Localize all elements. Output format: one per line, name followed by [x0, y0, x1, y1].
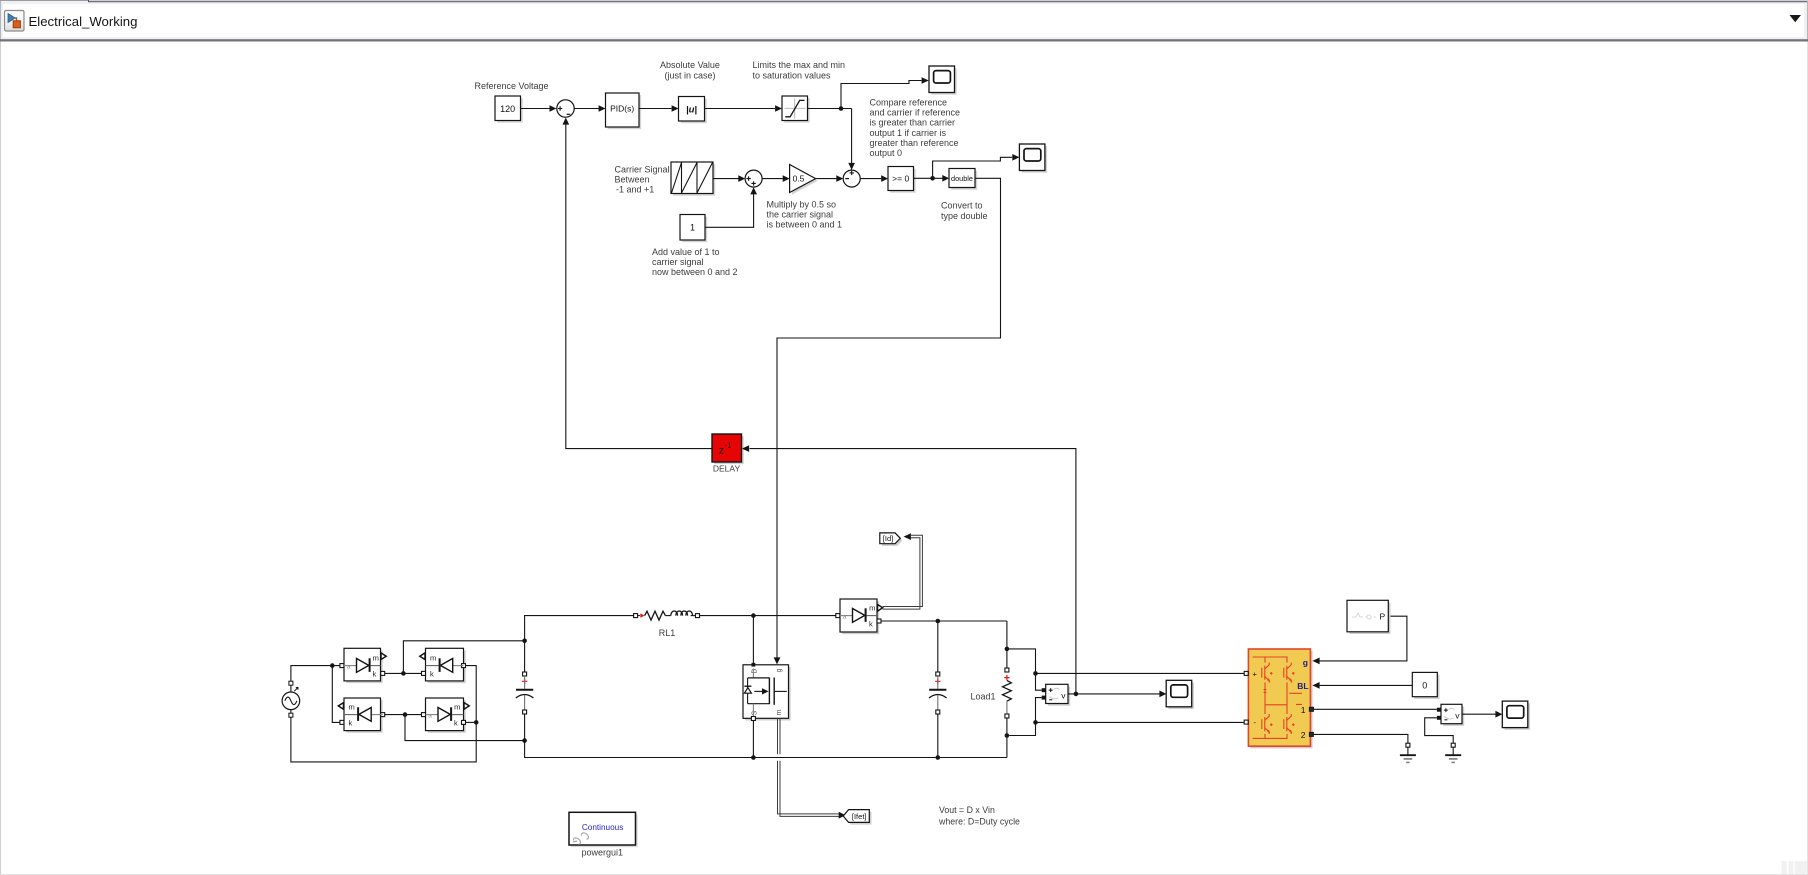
svg-text:Carrier Signal: Carrier Signal — [615, 165, 670, 175]
annotation: Convert to type double — [941, 201, 988, 222]
svg-text:D: D — [752, 669, 759, 674]
diode D4 (bridge bottom-right) — [422, 698, 470, 733]
svg-text:powergui1: powergui1 — [582, 848, 624, 858]
data type conversion double — [949, 169, 977, 190]
svg-text:a: a — [843, 613, 847, 620]
abs block |u| — [679, 97, 707, 124]
svg-text:k: k — [454, 719, 458, 728]
svg-text:Reference Voltage: Reference Voltage — [475, 81, 549, 91]
svg-text:v: v — [1455, 710, 1460, 720]
wire D3.a to D4.a with negative tap — [385, 712, 527, 743]
wire saturation out with junction — [808, 106, 852, 111]
svg-text:a: a — [347, 663, 351, 670]
wire V2 minus to ground G2 — [1425, 718, 1454, 743]
DC bus left vertical — [525, 616, 754, 758]
wire V1 minus chain and bridge minus — [1009, 698, 1244, 736]
svg-text:m: m — [349, 703, 355, 712]
wire bridge out2 to ground G1 — [1313, 734, 1408, 743]
svg-text:is greater than carrier: is greater than carrier — [870, 118, 956, 128]
svg-text:Between: Between — [615, 175, 650, 185]
diode D3 (bridge bottom-left, mirrored) — [338, 698, 384, 733]
svg-text:k: k — [373, 670, 377, 679]
svg-text:m: m — [869, 604, 875, 613]
diode D5 m double wire to Id tag — [883, 533, 923, 609]
annotation: Limits the max and min — [753, 60, 846, 80]
annotation: Absolute Value — [660, 60, 720, 80]
svg-text:the carrier signal: the carrier signal — [767, 210, 834, 220]
svg-text:m: m — [776, 710, 783, 716]
wire constant0 to bridge BL — [1312, 682, 1412, 689]
voltage measurement V1 — [1042, 684, 1071, 705]
wire RL1 to diode5 with mosfet tap — [700, 613, 836, 663]
ground G1 — [1400, 743, 1416, 762]
wire feedback into delay (from V junction) — [742, 445, 1076, 694]
svg-text:output 1 if carrier is: output 1 if carrier is — [870, 128, 947, 138]
svg-text:a: a — [428, 712, 432, 719]
svg-text:-1: -1 — [725, 443, 731, 450]
wire double down to mosfet gate — [774, 178, 1001, 664]
powergui block — [569, 812, 638, 847]
wire mosfet source to bottom bus — [751, 721, 756, 760]
goto tag Ifet — [843, 810, 871, 825]
svg-text:2: 2 — [1301, 730, 1306, 740]
wire sum4 to relational — [860, 175, 888, 182]
dropdown caret — [1790, 15, 1802, 22]
wire junction down to diode3 k — [332, 666, 340, 723]
wire gain to sum4 — [816, 175, 844, 182]
annotation: Vout formula — [938, 805, 1020, 827]
svg-text:output 0: output 0 — [870, 148, 903, 158]
svg-text:[Ifet]: [Ifet] — [852, 812, 867, 821]
relational operator >= 0 — [888, 167, 916, 193]
universal bridge (yellow) — [1244, 649, 1313, 748]
diode D2 (bridge top-right, mirrored) — [420, 648, 466, 683]
wire AC top to bridge top-left — [291, 663, 340, 681]
wire P block to bridge gate g — [1312, 616, 1407, 664]
svg-text:Load1: Load1 — [970, 692, 995, 702]
scope1 — [929, 66, 957, 95]
goto tag Id — [880, 533, 903, 546]
svg-text:is between 0 and 1: is between 0 and 1 — [767, 220, 843, 230]
wire 120 to sum1 — [521, 105, 557, 112]
constant block 1 — [680, 215, 707, 243]
svg-text:DELAY: DELAY — [713, 464, 741, 474]
sum S1 — [557, 100, 574, 117]
load resistor Load1 — [1003, 649, 1012, 758]
wire carrier to sum3 — [714, 175, 746, 182]
delay block z-1 — [712, 434, 744, 464]
simulink model icon button — [5, 11, 25, 32]
svg-text:g: g — [776, 668, 783, 672]
wire bridge out1 to V2 plus — [1313, 708, 1437, 710]
wire D1.k to D2.k with positive tap — [385, 639, 527, 676]
status chips bottom right — [1782, 861, 1807, 874]
svg-text:1: 1 — [1301, 705, 1306, 715]
diode D1 (bridge top-left) — [340, 648, 386, 683]
svg-text:and carrier if reference: and carrier if reference — [870, 108, 961, 118]
svg-text:(just in case): (just in case) — [664, 71, 715, 81]
svg-text:>= 0: >= 0 — [892, 174, 909, 184]
title bar background — [0, 0, 1808, 42]
svg-text:Continuous: Continuous — [582, 823, 623, 832]
wire V2 out to scope4 — [1462, 711, 1502, 718]
voltage measurement V2 — [1437, 704, 1464, 726]
mosfet block Q1 — [743, 663, 791, 721]
scope3 — [1166, 680, 1194, 709]
constant block 0 — [1412, 672, 1439, 698]
svg-text:BL: BL — [1297, 681, 1308, 691]
svg-text:m: m — [430, 654, 436, 663]
svg-text:S: S — [752, 711, 759, 716]
svg-text:+: + — [1253, 670, 1258, 679]
wire sum3 to gain — [762, 175, 790, 182]
svg-text:k: k — [349, 719, 353, 728]
diode D5 (freewheel) — [836, 599, 883, 634]
label Load1 — [970, 692, 995, 702]
wire D5.k to load node — [881, 619, 1009, 672]
ground G2 — [1445, 743, 1461, 762]
wire load node to V1 plus and bridge plus — [1007, 649, 1244, 690]
svg-text:type double: type double — [941, 211, 988, 221]
svg-text:m: m — [454, 703, 460, 712]
svg-text:m: m — [373, 654, 379, 663]
svg-text:|u|: |u| — [686, 104, 697, 115]
repeating sequence block (carrier) — [671, 162, 715, 196]
svg-text:g: g — [1303, 658, 1308, 668]
label RL1 — [659, 628, 676, 638]
wire junction down to sum4 — [848, 109, 855, 171]
annotation: Add value of 1 note — [652, 247, 738, 277]
mosfet m measurement double wire to Ifet — [778, 718, 846, 818]
capacitor C1 — [516, 672, 534, 714]
svg-text:Compare reference: Compare reference — [870, 98, 948, 108]
annotation: Compare reference note — [870, 98, 961, 159]
series RL branch RL1 — [634, 611, 700, 620]
constant block 120 — [495, 96, 523, 123]
scope4 — [1502, 701, 1530, 730]
sum S4 compare — [843, 170, 860, 187]
saturation block — [782, 96, 810, 123]
svg-text:k: k — [430, 670, 434, 679]
wire junction to scope1 — [841, 77, 929, 108]
svg-text:[Id]: [Id] — [883, 534, 893, 543]
wire relational to double with junction — [914, 175, 950, 182]
label powergui1 — [582, 848, 624, 858]
svg-text:greater than reference: greater than reference — [870, 138, 959, 148]
svg-text:Add value of 1 to: Add value of 1 to — [652, 247, 720, 257]
svg-text:now between 0 and 2: now between 0 and 2 — [652, 267, 738, 277]
svg-text:-1 and +1: -1 and +1 — [616, 185, 654, 195]
PID controller U1 — [606, 93, 642, 129]
svg-text:P: P — [1380, 611, 1386, 621]
pulse source block P — [1347, 600, 1391, 634]
wire abs to saturation — [705, 105, 783, 112]
svg-text:Convert to: Convert to — [941, 201, 983, 211]
annotation: Reference Voltage — [475, 81, 549, 91]
annotation: Carrier Signal note — [615, 165, 670, 195]
svg-text:0: 0 — [1422, 681, 1427, 691]
svg-text:k: k — [869, 620, 873, 629]
label DELAY — [713, 464, 741, 474]
svg-text:120: 120 — [500, 104, 515, 114]
wire V1 out to scope3 and feedback node — [1068, 691, 1166, 698]
svg-text:to saturation values: to saturation values — [753, 71, 832, 81]
svg-text:where: D=Duty cycle: where: D=Duty cycle — [938, 817, 1020, 827]
svg-text:v: v — [1061, 690, 1066, 700]
svg-text:Electrical_Working: Electrical_Working — [29, 14, 138, 29]
wire junction to scope2 — [933, 154, 1020, 178]
wire delay out to sum1 south — [563, 118, 713, 449]
annotation: Multiply by 0.5 note — [767, 200, 843, 230]
svg-text:Multiply by 0.5 so: Multiply by 0.5 so — [767, 200, 837, 210]
svg-text:carrier signal: carrier signal — [652, 257, 704, 267]
wire D2.a / D4.k return to AC bottom — [291, 666, 479, 762]
sum S3 add one — [745, 170, 762, 187]
AC voltage source — [282, 681, 300, 717]
svg-text:z: z — [719, 446, 724, 457]
scope2 — [1019, 144, 1047, 173]
wire PID to abs — [639, 105, 679, 112]
svg-text:0.5: 0.5 — [793, 174, 805, 184]
svg-text:RL1: RL1 — [659, 628, 676, 638]
svg-text:1: 1 — [690, 223, 695, 233]
bottom bus to load — [753, 755, 1007, 760]
wire const1 to sum3 south — [705, 187, 757, 227]
model title text — [29, 14, 138, 29]
svg-text:Vout = D x Vin: Vout = D x Vin — [939, 805, 995, 815]
gain 0.5 — [790, 165, 818, 195]
svg-text:PID(s): PID(s) — [610, 104, 634, 114]
capacitor C2 — [929, 672, 947, 758]
wire sum1 to PID — [574, 105, 605, 112]
svg-text:Absolute Value: Absolute Value — [660, 60, 720, 70]
svg-text:double: double — [951, 174, 973, 183]
svg-text:Limits the max and min: Limits the max and min — [753, 60, 846, 70]
